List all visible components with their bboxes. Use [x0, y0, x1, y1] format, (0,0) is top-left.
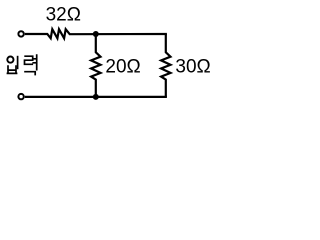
- svg-text:20Ω: 20Ω: [105, 57, 140, 78]
- svg-text:32Ω: 32Ω: [46, 4, 81, 25]
- svg-text:30Ω: 30Ω: [175, 57, 210, 78]
